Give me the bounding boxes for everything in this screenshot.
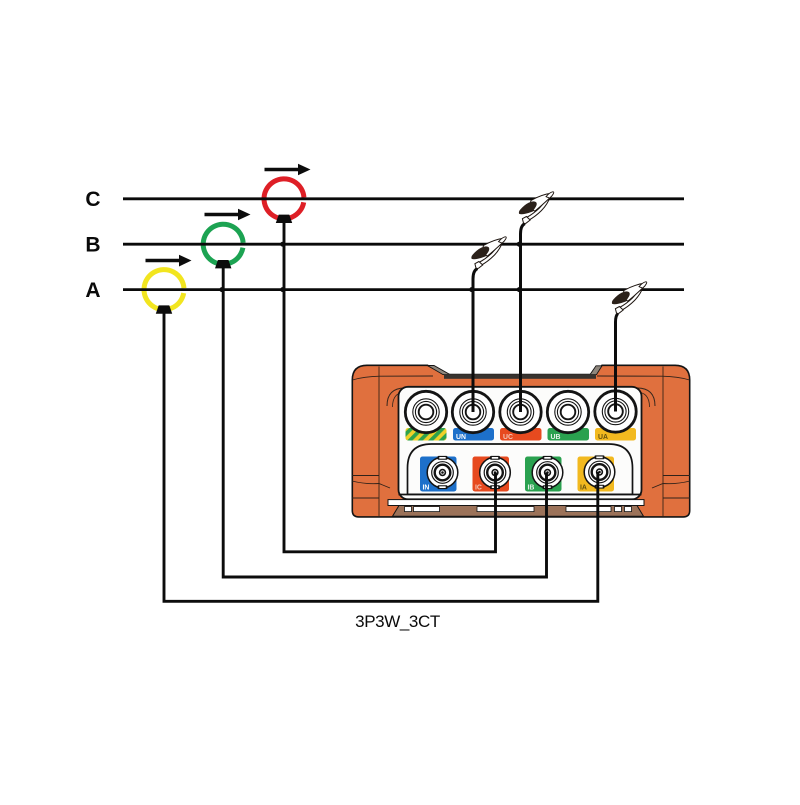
top recess slope right (gray)	[590, 366, 602, 375]
banana terminal UB	[547, 391, 588, 432]
svg-text:B: B	[85, 234, 100, 257]
BNC square IB	[525, 457, 562, 492]
BNC square IN	[420, 457, 457, 492]
svg-text:IA: IA	[580, 485, 587, 492]
body bevel line left	[378, 367, 380, 517]
shoulder seam left	[353, 376, 434, 380]
svg-text:UB: UB	[551, 434, 561, 441]
analyzer body (orange case)	[352, 365, 689, 517]
BNC connector IB	[532, 456, 563, 489]
vent slots	[405, 507, 632, 512]
svg-text:UA: UA	[598, 434, 608, 441]
svg-text:UC: UC	[503, 434, 513, 441]
voltage tab UC	[500, 428, 542, 441]
svg-text:3P3W_3CT: 3P3W_3CT	[355, 612, 440, 631]
wire: phase B line	[123, 243, 684, 246]
CT clamp hinge (red)	[276, 215, 292, 223]
bottom vent strip (brown)	[393, 506, 644, 517]
svg-text:A: A	[85, 279, 100, 302]
svg-text:IN: IN	[423, 485, 430, 492]
wire: CT green lead (B phase) to IB	[223, 267, 546, 578]
body bevel line right	[662, 367, 664, 517]
BNC connector IC	[480, 456, 511, 489]
svg-text:IB: IB	[528, 485, 535, 492]
wire: UN voltage lead to phase B clip	[473, 269, 478, 413]
shoulder seam right	[597, 376, 690, 380]
BNC square IA	[578, 457, 615, 492]
bottom ledge strip	[388, 500, 644, 506]
wire: CT yellow lead (A phase) to IA	[164, 312, 598, 601]
BNC connector IN	[427, 456, 458, 489]
current direction arrow (phase C)	[265, 164, 311, 175]
BNC connector IA	[584, 455, 615, 488]
svg-text:C: C	[85, 188, 100, 211]
junction dot: UC lead x phase B	[517, 242, 522, 247]
banana terminal UC	[500, 391, 541, 432]
voltage clip on phase A (to UA)	[612, 282, 647, 314]
inner corner arc top-right	[637, 388, 655, 406]
CT clamp ring A1 (yellow, phase A)	[144, 270, 184, 310]
white terminal panel	[399, 387, 642, 500]
junction dot: green lead x phase A	[219, 287, 224, 292]
junction dot: red lead x phase B	[280, 242, 285, 247]
top recess slope left (gray)	[428, 366, 451, 375]
voltage tab UB	[548, 428, 590, 441]
wire: phase C line	[123, 197, 684, 200]
wire: UA voltage lead to phase A clip	[616, 314, 619, 412]
junction dot: red lead x phase A	[280, 287, 285, 292]
banana terminal GND	[405, 391, 446, 432]
CT clamp ring C1 (red, phase C)	[264, 179, 304, 219]
junction dot: UN lead x phase A	[469, 287, 474, 292]
banana terminal UN	[452, 391, 493, 432]
junction dot: UC lead x phase A	[517, 287, 522, 292]
banana terminal UA	[595, 391, 636, 432]
svg-text:UN: UN	[456, 434, 466, 441]
lower bevel seam left	[352, 475, 379, 477]
voltage clip on phase C (to UC)	[519, 192, 554, 224]
voltage tab UA	[595, 428, 636, 441]
current input sub-panel	[408, 444, 633, 494]
wire: CT red lead (C phase) to IC	[284, 221, 496, 552]
sub-panel bottom line	[399, 494, 642, 496]
voltage clip on phase B (to UN)	[471, 237, 506, 269]
top recess dark strip	[444, 374, 596, 379]
lower bevel seam right	[663, 475, 690, 477]
wire: UC voltage lead to phase C clip	[521, 224, 526, 413]
BNC square IC	[473, 457, 510, 492]
current direction arrow (phase A)	[146, 255, 192, 267]
voltage tab UN	[453, 428, 494, 441]
CT clamp hinge (green)	[215, 260, 231, 268]
CT clamp ring B1 (green, phase B)	[203, 224, 243, 264]
svg-text:IC: IC	[475, 485, 482, 492]
inner corner arc top-left	[387, 388, 405, 406]
CT clamp hinge (yellow)	[156, 305, 172, 313]
earth tab (striped)	[406, 428, 447, 441]
current direction arrow (phase B)	[205, 209, 251, 220]
wire: phase A line	[123, 288, 684, 291]
